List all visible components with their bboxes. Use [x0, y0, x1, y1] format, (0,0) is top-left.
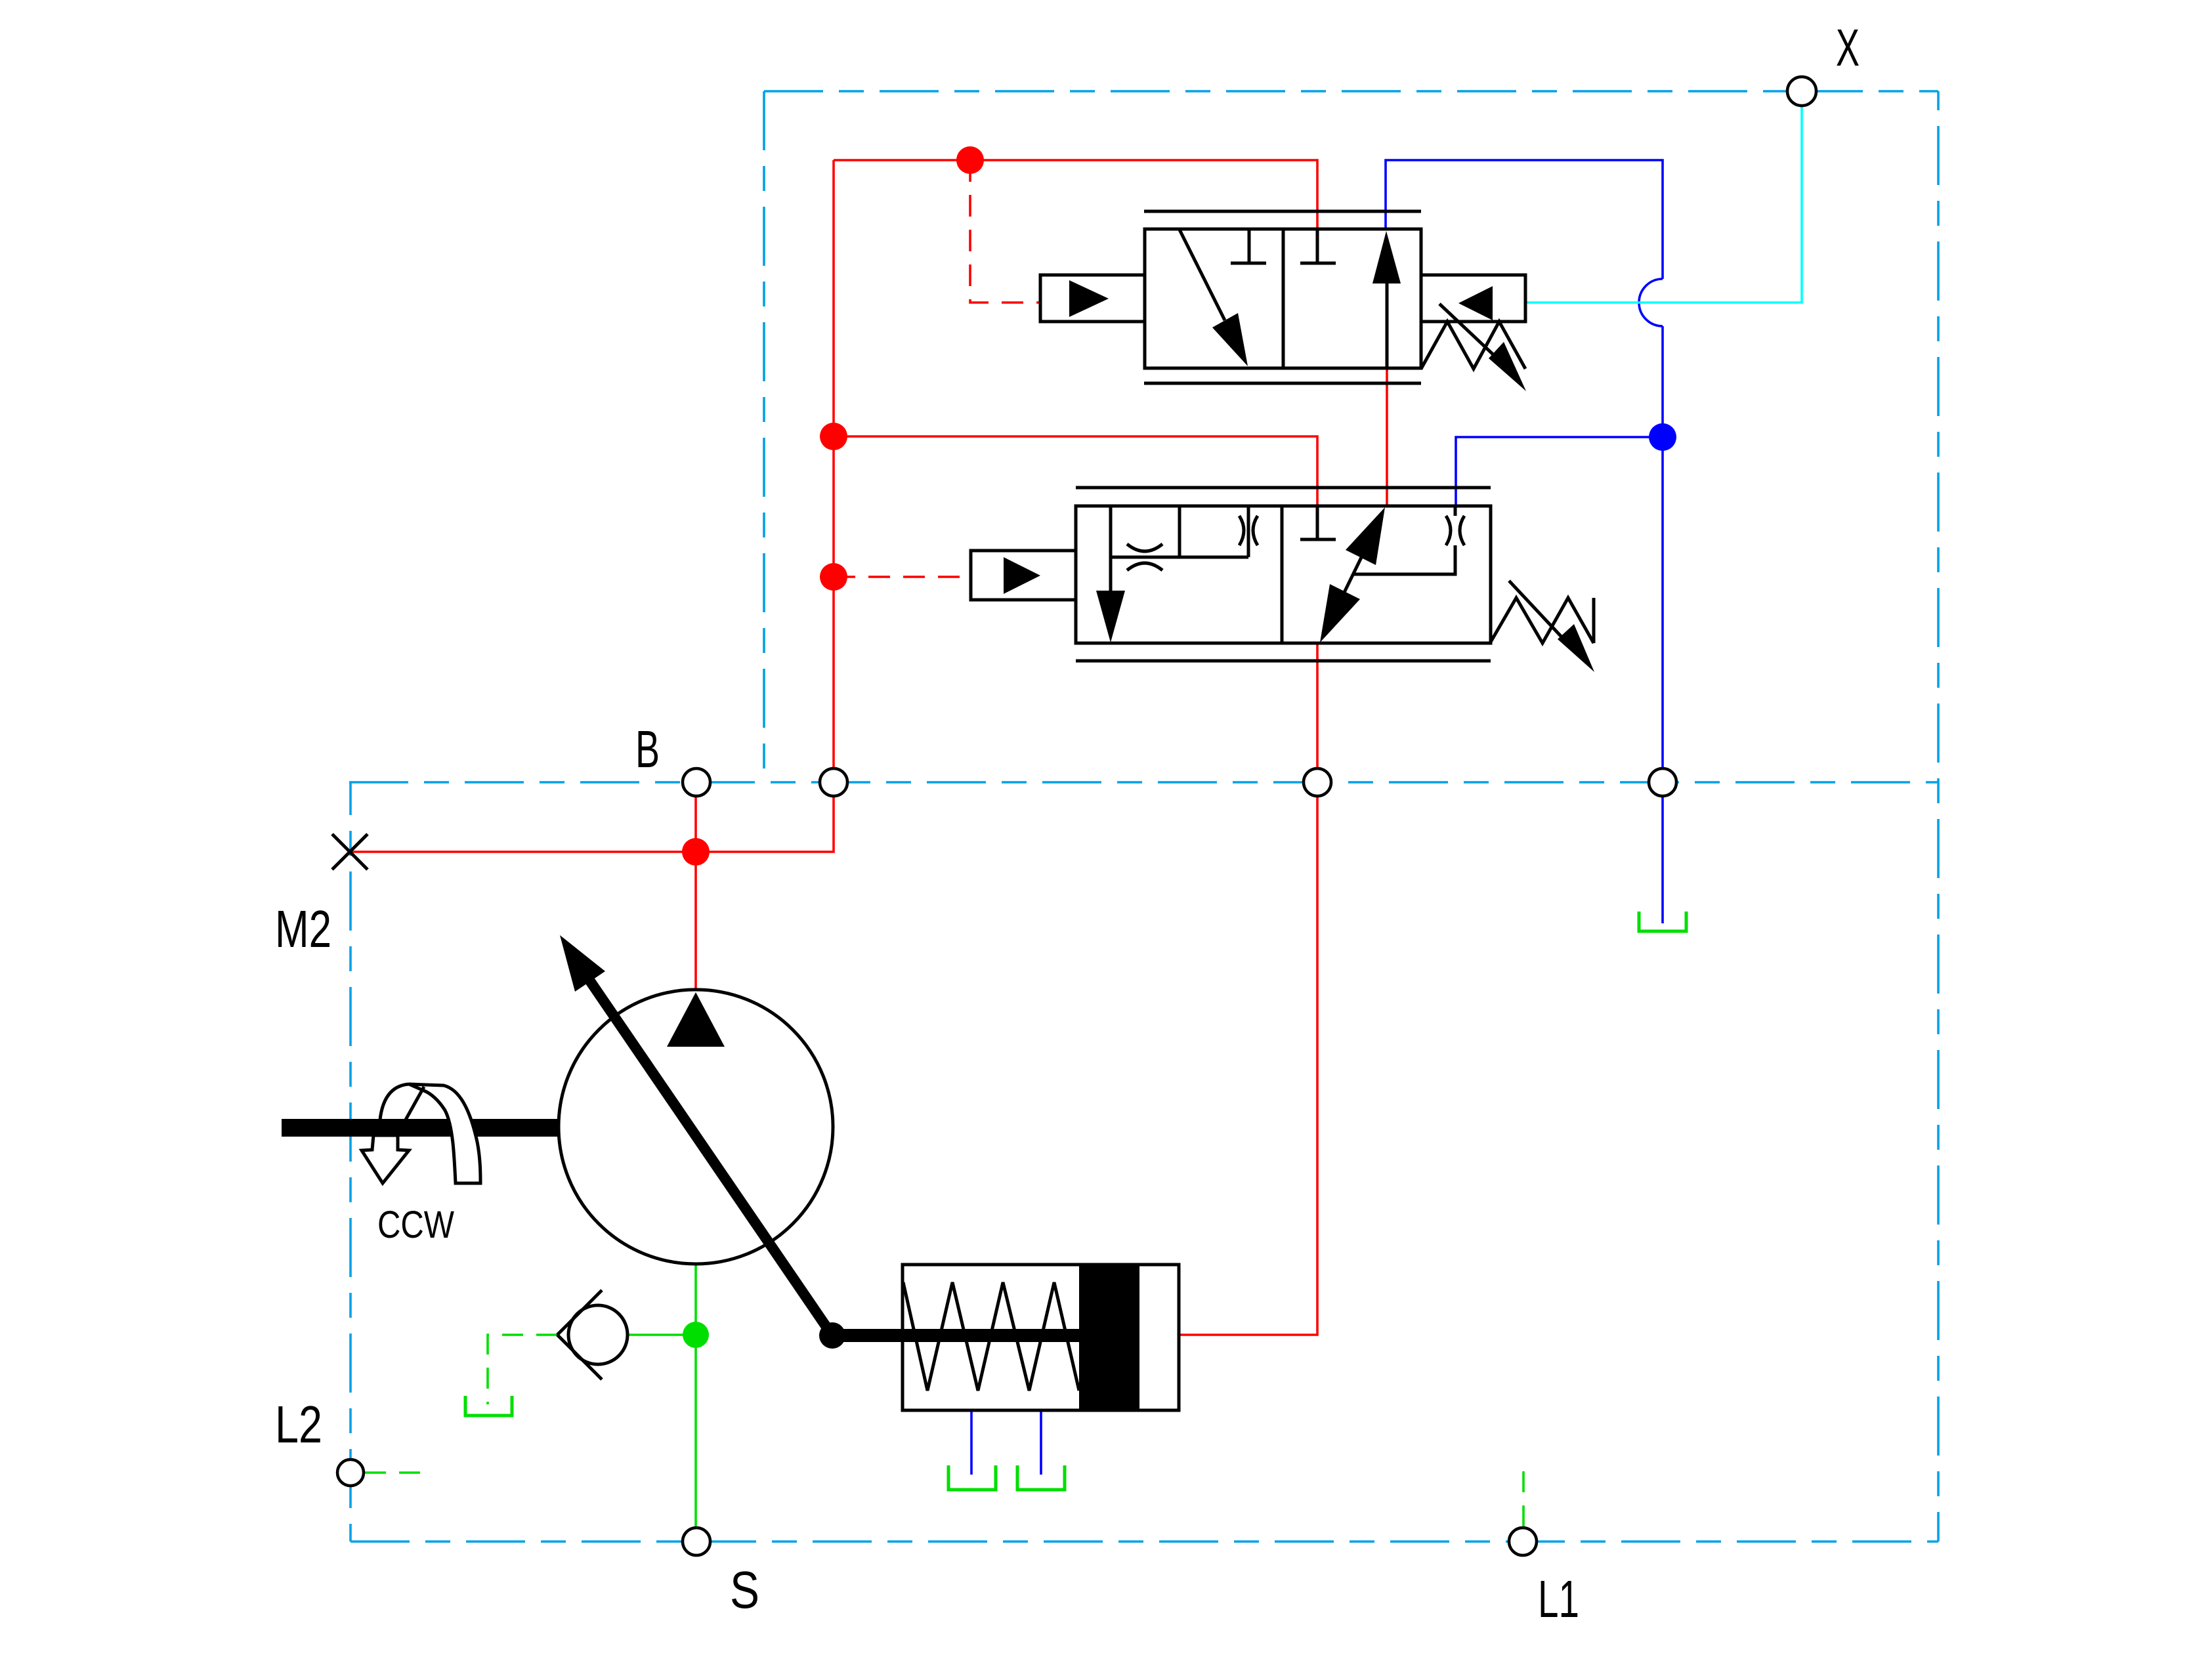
svg-text:X: X: [1836, 18, 1860, 77]
svg-text:CCW: CCW: [377, 1204, 454, 1246]
svg-text:M2: M2: [275, 900, 331, 958]
svg-text:L1: L1: [1538, 1570, 1579, 1628]
svg-text:S: S: [730, 1561, 759, 1619]
svg-text:B: B: [635, 720, 660, 778]
svg-text:L2: L2: [275, 1395, 322, 1454]
